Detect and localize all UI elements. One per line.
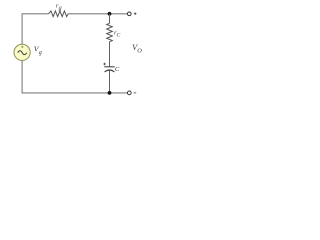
wire: left vertical top (source to top rail)	[21, 14, 23, 45]
wire: bottom rail	[22, 92, 128, 94]
label + (source internal polarity)	[21, 46, 23, 48]
label + (capacitor polarity)	[103, 63, 106, 66]
terminal - (bottom open circle)	[127, 91, 131, 95]
terminal + (top open circle)	[127, 12, 131, 16]
sine symbol inside source	[18, 51, 27, 55]
label V_O	[132, 43, 142, 55]
svg-text:C: C	[115, 66, 120, 73]
voltage source Vg (AC source circle)	[14, 44, 30, 60]
label V_g	[34, 45, 42, 56]
svg-text:C: C	[117, 32, 121, 38]
label r_g	[56, 2, 62, 11]
wire: left vertical bottom (source to bottom rail)	[21, 60, 23, 93]
wire: top rail right segment	[68, 13, 127, 15]
resistor R2 (r_C)	[107, 23, 113, 42]
resistor R1 (r_g)	[49, 11, 69, 17]
wire: branch from node A down to r_C	[109, 14, 111, 23]
node A (top junction)	[108, 12, 112, 16]
svg-text:g: g	[59, 5, 62, 11]
label + (top terminal polarity)	[134, 12, 137, 15]
wire: capacitor to bottom rail	[109, 70, 111, 93]
svg-text:g: g	[39, 50, 42, 56]
label r_C	[114, 29, 121, 38]
label - (bottom terminal polarity)	[134, 92, 137, 94]
wire: top rail left segment	[22, 13, 49, 15]
capacitor C1 bottom curved plate	[105, 70, 115, 72]
node B (bottom junction)	[108, 91, 112, 95]
svg-text:O: O	[137, 47, 142, 54]
wire: r_C to capacitor	[109, 42, 111, 67]
capacitor C1 top plate	[104, 66, 114, 68]
